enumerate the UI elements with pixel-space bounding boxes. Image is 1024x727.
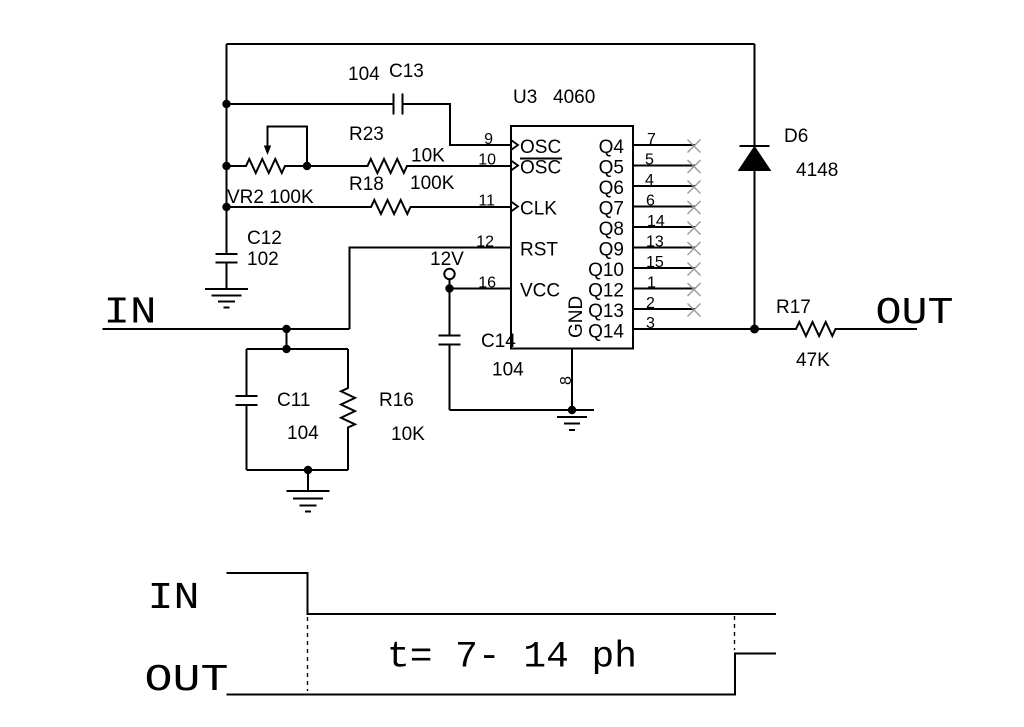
svg-text:10K: 10K <box>411 146 445 167</box>
no-connect X Q6 <box>688 181 701 194</box>
timing dashed edge right <box>734 616 736 650</box>
svg-text:Q8: Q8 <box>599 219 624 240</box>
svg-text:Q4: Q4 <box>599 137 625 158</box>
wire Q10 NC <box>633 267 695 269</box>
svg-text:C11: C11 <box>277 390 310 411</box>
wire Q4 NC <box>633 144 695 146</box>
ground filter <box>287 470 330 512</box>
svg-text:C13: C13 <box>389 61 424 82</box>
svg-text:R23: R23 <box>349 124 384 145</box>
wire IN <box>103 328 350 330</box>
resistor R18 <box>227 200 512 214</box>
svg-text:Q13: Q13 <box>588 301 624 322</box>
svg-text:U3: U3 <box>513 87 537 108</box>
wire filter bottom rail <box>247 469 349 471</box>
svg-text:7: 7 <box>647 131 656 148</box>
svg-text:Q5: Q5 <box>599 158 624 179</box>
wire Q8 NC <box>633 226 695 228</box>
wire left rail <box>226 44 228 254</box>
svg-text:6: 6 <box>646 193 655 210</box>
no-connect X Q9 <box>688 242 701 255</box>
node ground junction <box>568 406 576 414</box>
svg-text:3: 3 <box>646 315 655 332</box>
no-connect X Q5 <box>688 160 701 173</box>
svg-text:OUT: OUT <box>876 292 954 335</box>
svg-text:VR2 100K: VR2 100K <box>227 187 314 208</box>
svg-text:D6: D6 <box>784 126 808 147</box>
capacitor C11 <box>236 349 258 470</box>
svg-text:13: 13 <box>646 234 664 251</box>
svg-text:Q7: Q7 <box>599 199 624 220</box>
capacitor C12 <box>216 254 238 289</box>
svg-text:12V: 12V <box>430 249 464 270</box>
no-connect X Q4 <box>688 140 701 153</box>
svg-text:100K: 100K <box>410 173 455 194</box>
svg-text:4148: 4148 <box>796 160 838 181</box>
node VR2 wiper junction <box>303 162 311 170</box>
no-connect X Q12 <box>688 283 701 296</box>
pin wedge CLK <box>511 202 518 212</box>
svg-text:9: 9 <box>484 131 493 148</box>
svg-text:R16: R16 <box>379 390 414 411</box>
svg-text:Q9: Q9 <box>599 240 624 261</box>
wire filter top rail <box>247 348 349 350</box>
node left rail / CLK junction <box>222 203 230 211</box>
svg-text:RST: RST <box>520 240 558 261</box>
wire RST <box>350 248 512 330</box>
wiper arrowhead <box>264 146 271 156</box>
wire C14 to ground <box>450 409 573 411</box>
node left rail / VR2 junction <box>222 162 230 170</box>
diode D6 triangle <box>740 148 770 171</box>
svg-text:10: 10 <box>478 152 496 169</box>
wire top rail <box>227 43 755 45</box>
svg-text:4: 4 <box>645 172 654 189</box>
wire C13 left <box>227 103 394 105</box>
svg-text:104: 104 <box>287 423 319 444</box>
svg-text:IN: IN <box>104 292 157 335</box>
wire Q14 output <box>633 328 755 330</box>
resistor R16 <box>341 349 355 470</box>
ground IC pin 8 <box>550 349 594 431</box>
svg-text:C14: C14 <box>481 331 516 352</box>
ground C12 <box>205 289 248 308</box>
wire Q6 NC <box>633 185 695 187</box>
svg-text:1: 1 <box>647 275 656 292</box>
no-connect X Q13 <box>688 304 701 317</box>
svg-text:14: 14 <box>647 213 665 230</box>
timing IN waveform <box>227 573 777 614</box>
svg-text:CLK: CLK <box>520 199 557 220</box>
node filter bottom junction <box>304 466 312 474</box>
timing OUT waveform <box>227 654 777 695</box>
svg-text:2: 2 <box>646 295 655 312</box>
svg-text:102: 102 <box>247 249 279 270</box>
svg-text:VCC: VCC <box>520 281 560 302</box>
svg-text:R18: R18 <box>349 174 384 195</box>
svg-text:5: 5 <box>645 152 654 169</box>
node left rail / C13 junction <box>222 100 230 108</box>
svg-text:104: 104 <box>348 64 380 85</box>
svg-text:Q14: Q14 <box>588 322 624 343</box>
svg-text:15: 15 <box>646 254 664 271</box>
capacitor C13 <box>394 94 403 115</box>
IC pin label OSC-bar overline <box>520 158 562 160</box>
svg-text:16: 16 <box>478 275 496 292</box>
node filter top junction <box>282 345 290 353</box>
wire IN stub to filter <box>286 329 288 349</box>
pin wedge OSC-bar <box>511 161 518 171</box>
svg-text:Q10: Q10 <box>588 260 624 281</box>
wire Q5 NC <box>633 165 695 167</box>
svg-text:Q6: Q6 <box>599 178 624 199</box>
svg-text:Q12: Q12 <box>588 281 624 302</box>
svg-text:IN: IN <box>148 577 200 620</box>
pin wedge OSC <box>511 140 518 150</box>
svg-text:47K: 47K <box>796 350 830 371</box>
capacitor C14 <box>439 289 461 411</box>
no-connect X Q10 <box>688 263 701 276</box>
svg-text:10K: 10K <box>391 424 425 445</box>
svg-text:t= 7- 14 ph: t= 7- 14 ph <box>387 637 637 679</box>
potentiometer VR2 <box>227 159 308 173</box>
no-connect X Q8 <box>688 222 701 235</box>
svg-text:C12: C12 <box>247 228 282 249</box>
svg-text:11: 11 <box>478 193 495 210</box>
op-amp U1: IC U3 4060 body <box>511 126 633 349</box>
node output junction <box>750 325 759 334</box>
wire Q7 NC <box>633 206 695 208</box>
node IN junction <box>282 325 290 333</box>
resistor R23 <box>307 159 511 173</box>
svg-text:OSC: OSC <box>520 137 561 158</box>
wire C13 to pin 9 <box>403 104 512 145</box>
wire 12V stem <box>449 279 451 288</box>
wire Q12 NC <box>633 288 695 290</box>
svg-text:8: 8 <box>558 376 575 385</box>
wiper of VR2 <box>268 127 308 167</box>
wire D6 to output node <box>754 170 756 329</box>
svg-text:OUT: OUT <box>145 659 229 702</box>
svg-text:4060: 4060 <box>553 87 595 108</box>
svg-text:R17: R17 <box>776 297 811 318</box>
node 12V junction <box>445 284 453 292</box>
wire VCC <box>450 288 512 290</box>
wire Q9 NC <box>633 247 695 249</box>
svg-text:OSC: OSC <box>520 158 561 179</box>
timing dashed edge left <box>307 617 309 691</box>
diode D6 <box>740 44 770 146</box>
no-connect X Q7 <box>688 201 701 214</box>
resistor R17 <box>755 322 918 336</box>
wire Q13 NC <box>633 308 695 310</box>
svg-text:12: 12 <box>476 234 494 251</box>
svg-text:GND: GND <box>566 296 587 338</box>
supply 12V terminal <box>444 269 454 279</box>
svg-text:104: 104 <box>492 360 524 381</box>
